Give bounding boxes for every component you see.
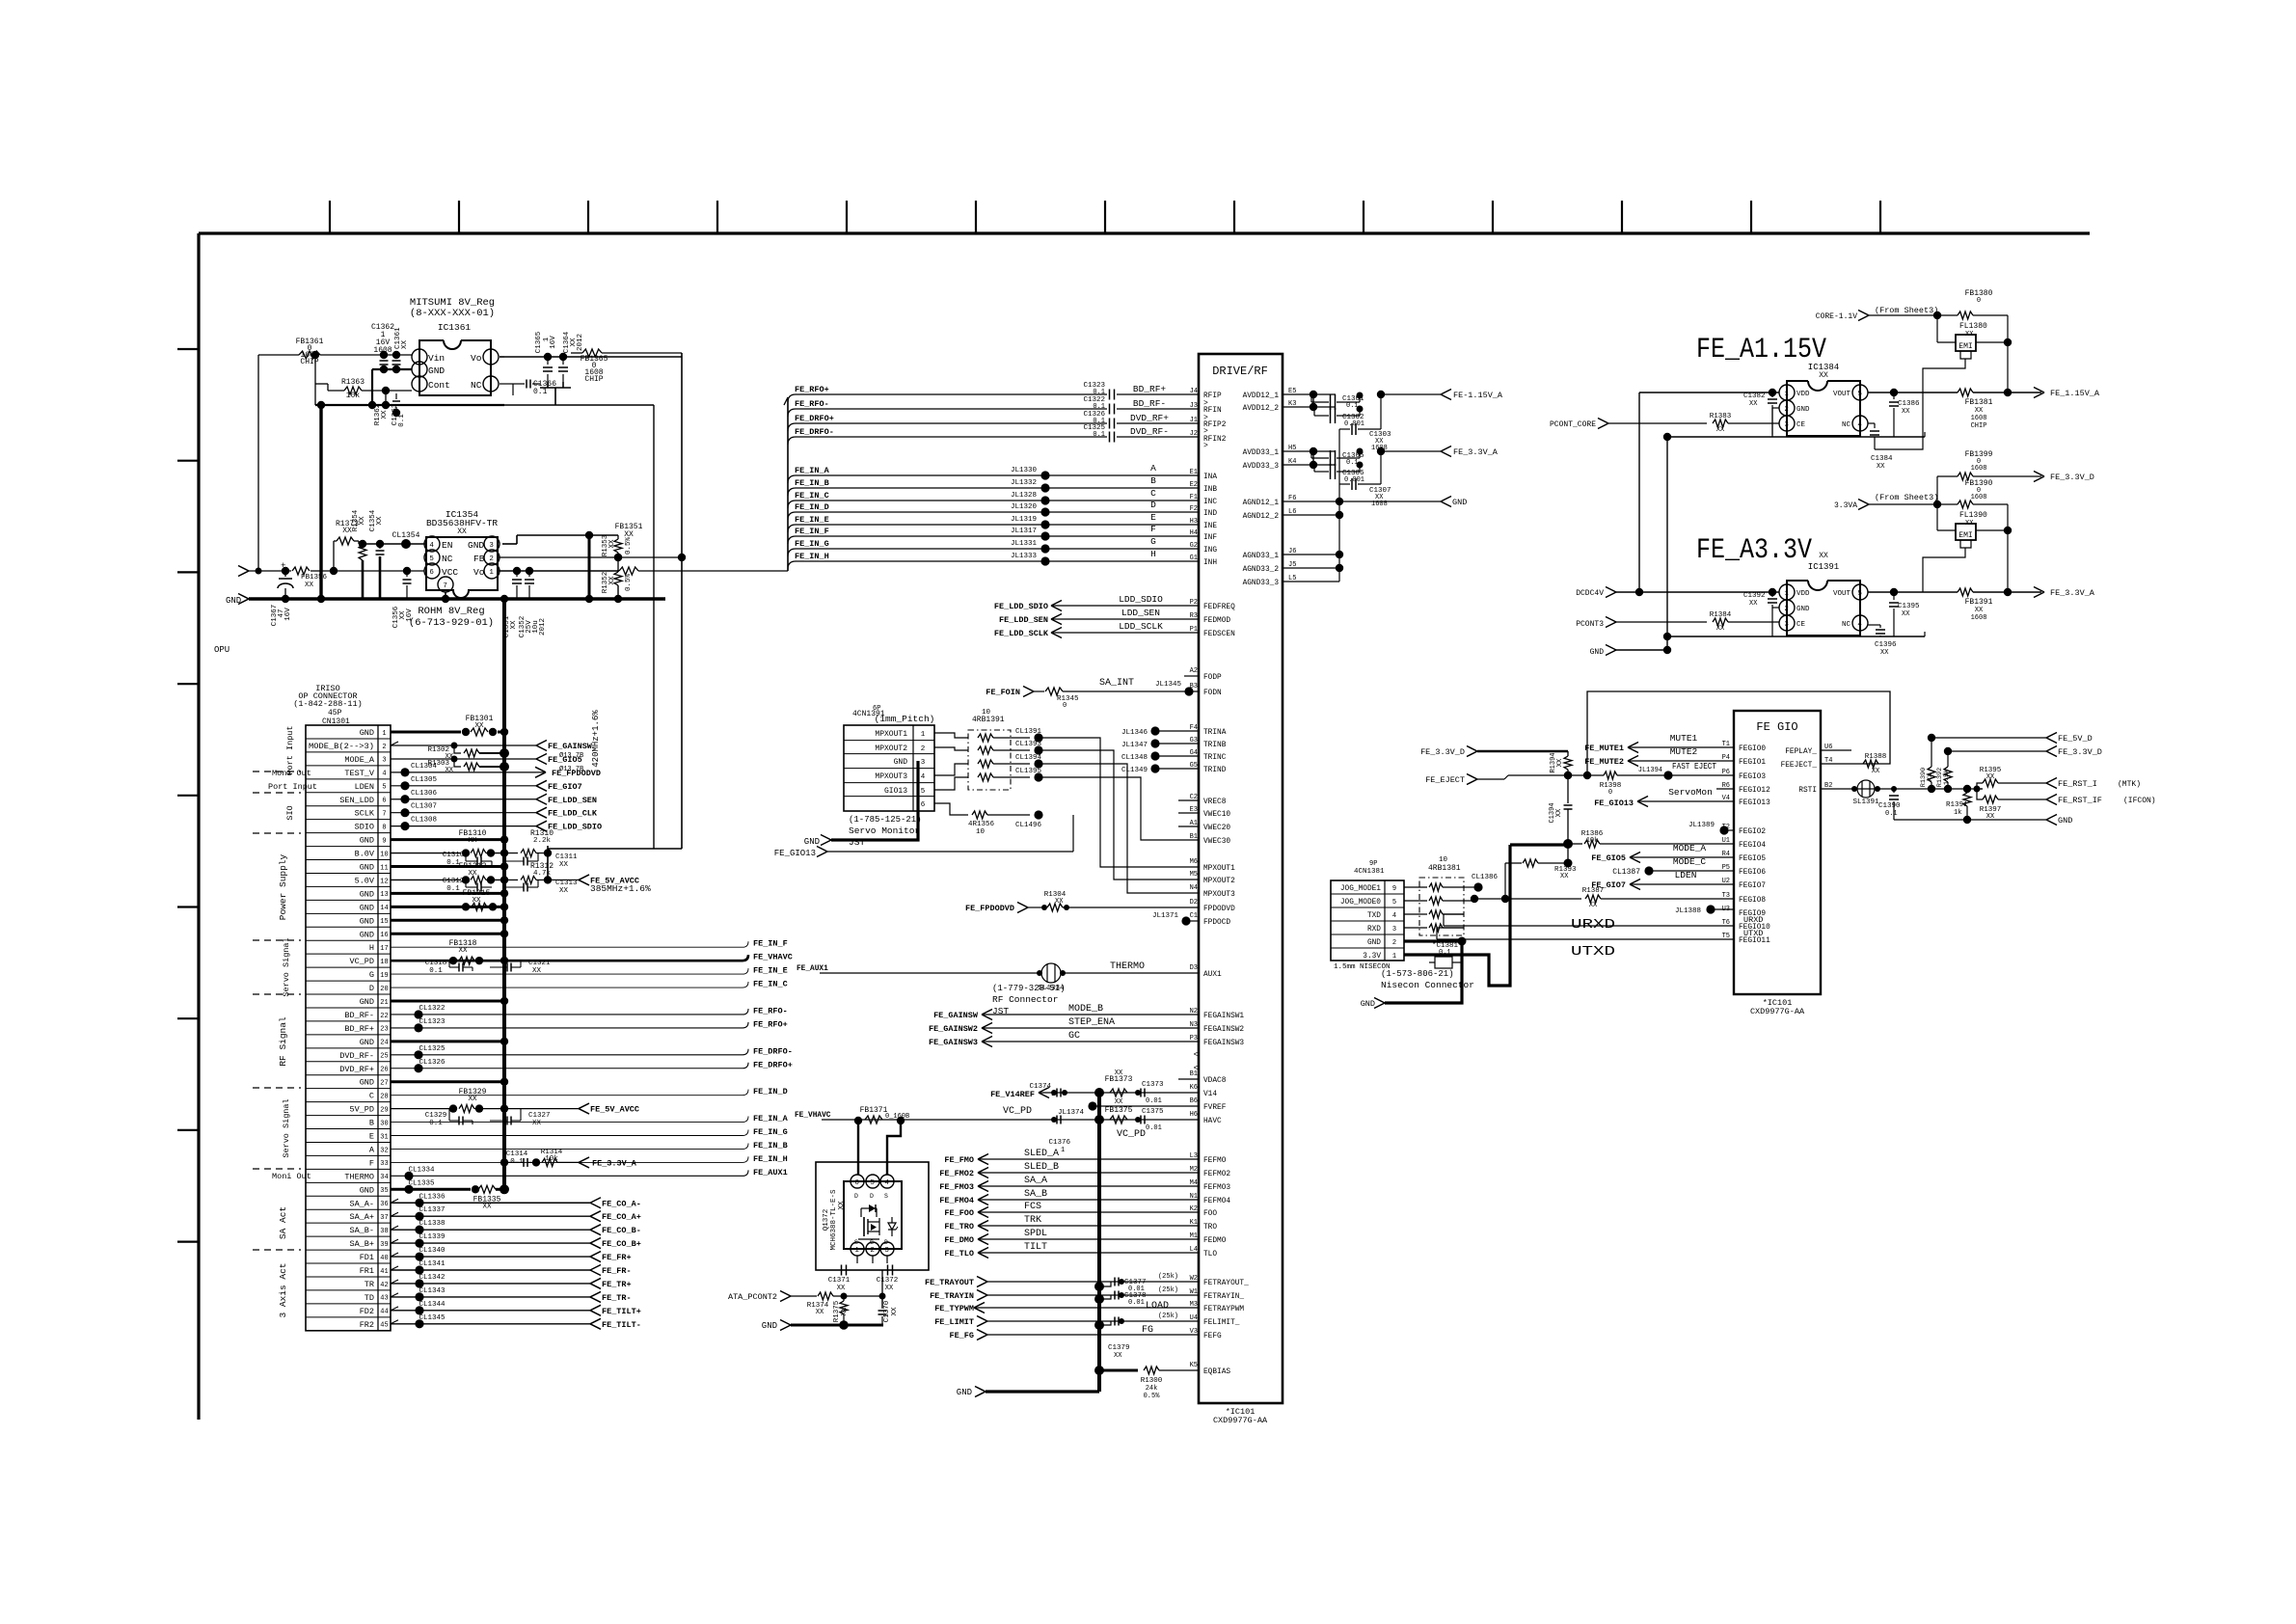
- net wire FE_IN_H jumper JL1333 to pin G1: [788, 561, 796, 569]
- svg-text:J1: J1: [1190, 417, 1198, 424]
- transistor Q1372 outer box: [816, 1162, 929, 1270]
- row31 wire to net FE_IN_G: [391, 1135, 743, 1137]
- svg-text:FE_RFO+: FE_RFO+: [795, 385, 829, 394]
- svg-text:C1396: C1396: [1875, 641, 1897, 649]
- svg-text:C1327: C1327: [528, 1112, 551, 1120]
- svg-text:CL1304: CL1304: [411, 763, 438, 771]
- svg-text:FE_TR+: FE_TR+: [602, 1280, 632, 1289]
- svg-text:H4: H4: [1190, 529, 1198, 537]
- svg-text:FE_3.3V_A: FE_3.3V_A: [1453, 447, 1499, 457]
- svg-text:XX: XX: [482, 1203, 492, 1210]
- svg-text:MUTE1: MUTE1: [1670, 733, 1698, 744]
- svg-text:C1376: C1376: [1048, 1139, 1070, 1147]
- row3 MODE_A wire arrow FE_GIO5: [391, 758, 536, 760]
- svg-text:1608: 1608: [1971, 614, 1987, 622]
- svg-text:XX: XX: [1975, 407, 1984, 415]
- svg-text:C: C: [369, 1092, 374, 1101]
- svg-text:9: 9: [1392, 885, 1396, 893]
- svg-text:FE_IN_F: FE_IN_F: [753, 939, 788, 949]
- row33 wire to net FE_IN_H: [391, 1161, 743, 1163]
- svg-text:3 Axis Act: 3 Axis Act: [278, 1262, 288, 1317]
- svg-text:XX: XX: [1114, 1352, 1122, 1360]
- svg-text:D: D: [870, 1193, 874, 1200]
- svg-text:K5: K5: [1190, 1362, 1198, 1369]
- svg-text:FR2: FR2: [360, 1320, 374, 1330]
- svg-text:SA_B: SA_B: [1024, 1189, 1047, 1200]
- svg-text:(1mm_Pitch): (1mm_Pitch): [875, 714, 935, 724]
- svg-text:VDD: VDD: [1796, 590, 1810, 598]
- svg-text:CL1341: CL1341: [419, 1260, 446, 1268]
- regulator IC1384 body: [1787, 381, 1860, 436]
- svg-text:FE_FG: FE_FG: [949, 1331, 974, 1340]
- svg-text:FE_FR-: FE_FR-: [602, 1266, 632, 1276]
- svg-text:FE_GAINSW: FE_GAINSW: [548, 742, 593, 751]
- svg-text:C1390: C1390: [1878, 802, 1901, 810]
- bridge SL1334: [1041, 963, 1061, 983]
- svg-text:5: 5: [870, 1179, 875, 1187]
- svg-text:FE_3.3V_A: FE_3.3V_A: [2050, 588, 2095, 598]
- Q1372 zener diode right: [891, 1217, 893, 1223]
- svg-text:GND: GND: [1361, 999, 1375, 1009]
- svg-text:RF Signal: RF Signal: [278, 1016, 288, 1067]
- IC1361 pin GND: [412, 362, 427, 377]
- svg-text:C1386: C1386: [1898, 400, 1920, 408]
- row10 B.0V network FB1310 R1310 C1310 C1311: [391, 853, 461, 854]
- svg-text:Cont: Cont: [428, 380, 450, 391]
- IC1361 pin NC: [483, 376, 499, 392]
- svg-text:36: 36: [380, 1201, 388, 1208]
- svg-text:R3: R3: [1190, 612, 1198, 620]
- svg-text:JOG_MODE1: JOG_MODE1: [1340, 885, 1381, 893]
- svg-text:13: 13: [380, 891, 388, 899]
- svg-text:CHIP: CHIP: [584, 375, 603, 384]
- row1 GND thick wire with FB1301: [391, 731, 461, 734]
- RSTI wire from pin B2: [1821, 788, 1983, 790]
- svg-text:39: 39: [380, 1241, 388, 1249]
- svg-text:FEFMO: FEFMO: [1203, 1157, 1227, 1165]
- svg-text:0.1: 0.1: [1439, 949, 1451, 957]
- svg-text:4: 4: [921, 773, 926, 781]
- svg-text:JL1388: JL1388: [1675, 907, 1701, 915]
- svg-text:CORE-1.1V: CORE-1.1V: [1816, 312, 1857, 321]
- svg-text:LDD_SEN: LDD_SEN: [1121, 608, 1160, 618]
- svg-text:C1: C1: [1190, 912, 1198, 920]
- wire riser to 8V bus lower rail: [314, 355, 316, 405]
- net wire FE_DRFO+ coupling cap C1326 to pin J1: [788, 423, 796, 431]
- IC1354 pin EN: [424, 536, 440, 552]
- svg-text:SEN_LDD: SEN_LDD: [339, 796, 374, 805]
- svg-text:DCDC4V: DCDC4V: [1576, 589, 1604, 598]
- svg-text:FE_LDD_SDIO: FE_LDD_SDIO: [548, 823, 602, 832]
- IC1354 pin VCC: [424, 563, 440, 579]
- thick analog ground bus x=1140: [1097, 1093, 1101, 1392]
- svg-text:FE_CO_A-: FE_CO_A-: [602, 1199, 641, 1208]
- RB1381 resistors: [1404, 886, 1427, 888]
- svg-text:10: 10: [380, 851, 388, 858]
- capacitor C1365 symbol: [547, 357, 549, 365]
- connector CN1301 table frame: [306, 725, 391, 1331]
- GND wire right: [1894, 819, 2046, 821]
- svg-text:FE_RST_I: FE_RST_I: [2058, 779, 2097, 789]
- ferrite bead FB1356: [292, 567, 310, 575]
- svg-text:GND: GND: [1452, 498, 1467, 507]
- left border tick marks: [177, 348, 199, 350]
- svg-text:TRK: TRK: [1024, 1215, 1041, 1226]
- svg-text:F1: F1: [1190, 494, 1198, 501]
- svg-text:MODE_C: MODE_C: [1673, 856, 1707, 867]
- svg-text:CL1344: CL1344: [419, 1301, 446, 1309]
- svg-text:FE_IN_F: FE_IN_F: [795, 527, 829, 536]
- svg-text:TEST_V: TEST_V: [344, 769, 375, 778]
- svg-text:CL1308: CL1308: [411, 817, 437, 825]
- svg-text:0.01: 0.01: [1128, 1299, 1145, 1307]
- svg-text:B: B: [369, 1119, 374, 1128]
- svg-text:CL1348: CL1348: [1121, 754, 1148, 762]
- svg-text:32: 32: [380, 1147, 388, 1154]
- svg-text:FE_EJECT: FE_EJECT: [1425, 775, 1465, 785]
- svg-text:FE_IN_D: FE_IN_D: [753, 1087, 788, 1096]
- svg-text:GND: GND: [1590, 648, 1605, 657]
- svg-text:XX: XX: [457, 528, 467, 536]
- svg-text:TLO: TLO: [1203, 1251, 1217, 1259]
- svg-text:H: H: [369, 943, 374, 953]
- svg-text:XX: XX: [885, 1285, 894, 1292]
- svg-text:420MHz+1.6%: 420MHz+1.6%: [591, 710, 601, 768]
- svg-text:Servo Signal: Servo Signal: [282, 1098, 291, 1157]
- svg-text:26: 26: [380, 1067, 388, 1074]
- svg-text:5.0V: 5.0V: [355, 876, 375, 885]
- svg-text:NC: NC: [1842, 621, 1851, 629]
- svg-text:CL1305: CL1305: [411, 776, 438, 784]
- svg-text:FE_IN_C: FE_IN_C: [795, 491, 829, 501]
- svg-text:GND: GND: [360, 997, 374, 1007]
- svg-text:SLED_B: SLED_B: [1024, 1162, 1059, 1173]
- svg-text:5: 5: [1857, 391, 1862, 398]
- svg-text:4: 4: [429, 542, 434, 550]
- svg-text:VWEC10: VWEC10: [1203, 811, 1230, 819]
- svg-text:>: >: [1203, 414, 1208, 422]
- svg-text:GND: GND: [2058, 816, 2072, 826]
- svg-text:MPXOUT3: MPXOUT3: [875, 772, 907, 781]
- svg-text:21: 21: [380, 999, 388, 1007]
- svg-text:XX: XX: [1902, 610, 1910, 618]
- svg-text:FE_TLO: FE_TLO: [944, 1249, 974, 1259]
- FG filter cap: [1094, 1320, 1104, 1330]
- svg-text:JL1331: JL1331: [1011, 540, 1038, 548]
- svg-text:AVDD12_2: AVDD12_2: [1243, 405, 1280, 413]
- net wire FE_IN_G jumper JL1331 to pin G2: [788, 549, 796, 556]
- svg-text:XX: XX: [342, 527, 352, 535]
- svg-text:FE_TILT+: FE_TILT+: [602, 1307, 641, 1316]
- svg-text:AUX1: AUX1: [1203, 971, 1222, 979]
- svg-text:MPXOUT2: MPXOUT2: [875, 744, 907, 753]
- svg-text:16V: 16V: [284, 608, 292, 621]
- svg-text:XX: XX: [1880, 649, 1889, 657]
- wire connector to RB1391 to jumper CL1393: [934, 747, 968, 750]
- IC1354 pin 7 bottom: [438, 577, 453, 592]
- svg-text:FEGIO6: FEGIO6: [1739, 869, 1766, 877]
- svg-text:5: 5: [1392, 899, 1396, 907]
- page border frame: [199, 231, 2090, 234]
- svg-text:FE_TRAYOUT: FE_TRAYOUT: [925, 1278, 974, 1287]
- svg-text:J4: J4: [1190, 388, 1198, 395]
- svg-text:FETRAYPWM: FETRAYPWM: [1203, 1306, 1244, 1313]
- svg-text:3: 3: [884, 1247, 889, 1255]
- MPXOUT route wires to IC: [1039, 738, 1199, 867]
- svg-text:FE_3.3V_D: FE_3.3V_D: [2050, 473, 2094, 482]
- svg-text:FE_IN_D: FE_IN_D: [795, 502, 829, 512]
- svg-text:18: 18: [380, 959, 388, 966]
- svg-text:CL1336: CL1336: [419, 1193, 446, 1201]
- row20 wire to net FE_IN_C: [391, 987, 743, 988]
- svg-text:SA_A-: SA_A-: [349, 1199, 374, 1208]
- svg-text:4RB1381: 4RB1381: [1428, 864, 1461, 873]
- svg-text:CL1342: CL1342: [419, 1274, 445, 1282]
- wire connector to RB1391 to jumper CL1395: [934, 777, 968, 790]
- net wire FE_IN_B jumper JL1332 to pin E2: [788, 488, 796, 496]
- svg-text:3.3V: 3.3V: [1363, 953, 1381, 961]
- svg-text:CL1338: CL1338: [419, 1220, 445, 1228]
- svg-text:FE_1.15V_A: FE_1.15V_A: [2050, 389, 2100, 398]
- svg-text:XX: XX: [446, 767, 454, 774]
- svg-text:C1382: C1382: [1743, 392, 1766, 400]
- svg-text:GND: GND: [804, 837, 820, 847]
- svg-text:FE_V14REF: FE_V14REF: [990, 1090, 1035, 1099]
- svg-text:FE_LDD_SDIO: FE_LDD_SDIO: [994, 602, 1048, 611]
- svg-text:JL1394: JL1394: [1638, 767, 1662, 774]
- svg-text:J3: J3: [1190, 402, 1198, 410]
- svg-text:9P: 9P: [1369, 860, 1377, 868]
- EMI FL1380 bottom pins to ground side: [1960, 351, 1971, 359]
- svg-text:35: 35: [380, 1187, 388, 1195]
- net wire FE_RFO- coupling cap C1322 to pin J3: [788, 409, 796, 417]
- svg-text:VC_PD: VC_PD: [1003, 1106, 1032, 1117]
- Q1372 mosfet symbol: [863, 1217, 865, 1236]
- svg-text:CL1322: CL1322: [419, 1005, 445, 1013]
- svg-text:FE_LIMIT: FE_LIMIT: [934, 1317, 974, 1327]
- regulator IC1354 body: [426, 537, 432, 590]
- svg-text:3: 3: [382, 757, 386, 765]
- svg-text:FB1391: FB1391: [1965, 598, 1993, 607]
- svg-text:>: >: [1203, 442, 1208, 450]
- AVDD33 decoupling caps C1305 C1306 C1307: [1312, 451, 1314, 465]
- svg-text:C1372: C1372: [877, 1277, 899, 1285]
- svg-text:C1371: C1371: [828, 1277, 851, 1285]
- svg-text:C1311: C1311: [555, 853, 578, 861]
- resistor network RB1391 dashed box: [968, 730, 1011, 790]
- row12 5.0V network FB1312 R1312 arrow FE_5V_AVCC: [391, 879, 461, 880]
- svg-text:BD_RF-: BD_RF-: [344, 1011, 374, 1020]
- svg-text:M3: M3: [1190, 1301, 1198, 1309]
- svg-text:AGND12_2: AGND12_2: [1243, 513, 1280, 521]
- svg-text:GND: GND: [894, 758, 908, 767]
- svg-text:RF Connector: RF Connector: [992, 994, 1058, 1005]
- DRIVE/RF ASIC IC1301 body: [1199, 354, 1283, 1403]
- svg-text:FE_LDD_SCLK: FE_LDD_SCLK: [994, 629, 1049, 638]
- svg-text:F2: F2: [1190, 505, 1198, 513]
- svg-text:1: 1: [1392, 953, 1396, 961]
- svg-text:FEGAINSW1: FEGAINSW1: [1203, 1013, 1244, 1020]
- svg-text:SA_B-: SA_B-: [349, 1226, 374, 1235]
- svg-text:1608: 1608: [1971, 465, 1987, 473]
- svg-text:FB1356: FB1356: [301, 574, 328, 582]
- AVDD12 decoupling caps C1301 C1302 C1303: [1312, 394, 1314, 407]
- IC1354 pin GND: [484, 536, 500, 552]
- svg-text:FB1381: FB1381: [1965, 398, 1993, 407]
- svg-text:40: 40: [380, 1255, 388, 1262]
- svg-text:FELIMIT_: FELIMIT_: [1203, 1319, 1240, 1327]
- svg-text:JL1389: JL1389: [1688, 822, 1715, 829]
- svg-text:RSTI: RSTI: [1798, 787, 1817, 795]
- svg-text:(25k): (25k): [1158, 1286, 1178, 1294]
- bridge SL1391: [1857, 780, 1875, 798]
- svg-text:H: H: [1150, 549, 1156, 559]
- pin7 wire to GND bus: [445, 592, 446, 599]
- svg-text:GND: GND: [360, 916, 374, 926]
- svg-text:7: 7: [382, 811, 386, 819]
- capacitor C1361 symbol: [395, 355, 397, 359]
- svg-text:M5: M5: [1190, 871, 1198, 879]
- svg-text:INE: INE: [1203, 523, 1217, 530]
- svg-text:CE: CE: [1796, 421, 1806, 429]
- wire GND of caps: [372, 368, 412, 370]
- wire FE_3.3V_D to R1394 chain: [1477, 750, 1568, 752]
- svg-text:THERMO: THERMO: [344, 1172, 374, 1181]
- svg-text:INA: INA: [1203, 474, 1217, 481]
- svg-text:42: 42: [380, 1282, 388, 1289]
- svg-text:FEFMO4: FEFMO4: [1203, 1198, 1230, 1205]
- svg-text:38: 38: [380, 1228, 388, 1235]
- svg-text:ATA_PCONT2: ATA_PCONT2: [728, 1292, 777, 1302]
- svg-text:GND: GND: [957, 1388, 972, 1397]
- svg-text:4CN1381: 4CN1381: [1354, 868, 1385, 876]
- row29 5V_PD network FB1329 C1329 C1327 arrow FE_5V_AVCC: [391, 1108, 453, 1110]
- svg-text:0: 0: [1063, 702, 1067, 710]
- svg-text:FEGIO7: FEGIO7: [1739, 882, 1766, 890]
- svg-text:<: <: [1194, 1050, 1199, 1060]
- svg-text:TD: TD: [365, 1293, 374, 1303]
- svg-text:DVD_RF+: DVD_RF+: [339, 1065, 374, 1074]
- svg-text:FEGIO2: FEGIO2: [1739, 828, 1766, 836]
- svg-text:FE_MUTE2: FE_MUTE2: [1584, 757, 1624, 767]
- svg-text:SA_INT: SA_INT: [1099, 678, 1134, 689]
- svg-text:CL1354: CL1354: [392, 531, 420, 540]
- R6 stub: [1716, 788, 1734, 790]
- svg-text:PCONT3: PCONT3: [1576, 620, 1604, 629]
- svg-text:(8-XXX-XXX-01): (8-XXX-XXX-01): [410, 308, 495, 319]
- svg-text:S: S: [854, 1239, 858, 1246]
- svg-text:FEFG: FEFG: [1203, 1333, 1222, 1340]
- svg-text:4R1356: 4R1356: [968, 821, 995, 828]
- svg-text:16: 16: [380, 932, 388, 939]
- svg-text:C1314: C1314: [506, 1150, 528, 1158]
- svg-text:PCONT_CORE: PCONT_CORE: [1550, 420, 1596, 429]
- resistor network RB1381 dashed box: [1419, 878, 1464, 935]
- svg-text:2012: 2012: [577, 334, 584, 351]
- svg-text:FEDMOD: FEDMOD: [1203, 617, 1230, 625]
- svg-text:6: 6: [854, 1179, 859, 1187]
- svg-text:FEPLAY_: FEPLAY_: [1785, 748, 1817, 756]
- svg-text:C1329: C1329: [425, 1112, 447, 1120]
- rows 9,11,13-16 GND thick wires to bus: [391, 838, 504, 841]
- svg-text:XX: XX: [376, 516, 384, 526]
- svg-text:B3: B3: [1190, 683, 1198, 690]
- net wire FE_RFO+ coupling cap C1323 to pin J4: [788, 394, 796, 402]
- svg-text:VC_PD: VC_PD: [1117, 1129, 1146, 1140]
- svg-text:28: 28: [380, 1093, 388, 1100]
- arrow FE_3.3V_A output right: [2034, 587, 2044, 593]
- vertical from Q1372 to ATA junction: [881, 1270, 883, 1308]
- svg-text:P3: P3: [1190, 1035, 1198, 1042]
- svg-text:FE_TILT-: FE_TILT-: [602, 1320, 641, 1330]
- GND pin3 wire to bus: [502, 543, 517, 545]
- svg-text:0.001: 0.001: [1344, 420, 1364, 428]
- svg-text:FE_GAINSW3: FE_GAINSW3: [929, 1038, 978, 1047]
- svg-text:0.1: 0.1: [429, 967, 443, 975]
- svg-text:B6: B6: [1190, 1097, 1198, 1105]
- svg-text:Port Input: Port Input: [285, 725, 295, 774]
- svg-text:STEP_ENA: STEP_ENA: [1068, 1017, 1115, 1028]
- svg-text:GND: GND: [360, 889, 374, 899]
- svg-text:JL1332: JL1332: [1011, 479, 1037, 487]
- svg-text:CL1343: CL1343: [419, 1287, 446, 1295]
- arrow FE_3.3V_A out: [1381, 450, 1441, 452]
- svg-text:FE_GAINSW: FE_GAINSW: [933, 1011, 979, 1020]
- svg-text:Power Supply: Power Supply: [278, 854, 288, 921]
- svg-text:A: A: [1150, 463, 1156, 474]
- svg-text:N4: N4: [1190, 884, 1198, 892]
- svg-text:FE_3.3V_D: FE_3.3V_D: [1420, 747, 1465, 757]
- svg-text:C1312: C1312: [443, 878, 465, 885]
- svg-text:5: 5: [921, 788, 926, 796]
- svg-text:FEGIO3: FEGIO3: [1739, 773, 1766, 781]
- svg-text:Nisecon Connector: Nisecon Connector: [1381, 980, 1474, 990]
- caps C1371 C1372 in bottom edge: [841, 1265, 843, 1276]
- svg-text:0.01: 0.01: [1146, 1097, 1162, 1105]
- svg-text:BD_RF+: BD_RF+: [1133, 384, 1167, 394]
- svg-text:JOG_MODE0: JOG_MODE0: [1340, 899, 1381, 907]
- svg-text:JL1320: JL1320: [1011, 503, 1038, 511]
- svg-text:E1: E1: [1190, 469, 1198, 476]
- svg-text:GND: GND: [1367, 939, 1381, 947]
- arrow FE-1.15V_A: [1381, 393, 1441, 395]
- svg-text:ServoMon: ServoMon: [1668, 787, 1713, 798]
- svg-text:FE_LDD_CLK: FE_LDD_CLK: [548, 809, 598, 819]
- svg-text:Vin: Vin: [428, 353, 445, 364]
- svg-text:FL1390: FL1390: [1959, 511, 1987, 520]
- row19 wire to net FE_IN_E: [391, 973, 743, 975]
- svg-text:0.1: 0.1: [1885, 810, 1898, 818]
- svg-text:FB: FB: [473, 554, 485, 564]
- svg-text:FE_AUX1: FE_AUX1: [753, 1168, 788, 1177]
- svg-text:FE GIO: FE GIO: [1756, 720, 1797, 734]
- svg-text:C1374: C1374: [1029, 1083, 1051, 1091]
- svg-text:K2: K2: [1190, 1205, 1198, 1213]
- svg-text:C1313: C1313: [555, 880, 578, 887]
- svg-text:XX: XX: [1115, 1098, 1123, 1106]
- svg-text:15: 15: [380, 918, 388, 926]
- svg-text:FPDODVD: FPDODVD: [1203, 906, 1235, 913]
- 8V rail feed to row networks: [548, 848, 682, 850]
- svg-text:DVD_RF-: DVD_RF-: [1130, 426, 1169, 437]
- svg-text:XX: XX: [559, 861, 569, 869]
- capacitor C1362 symbol: [383, 355, 385, 359]
- svg-text:FEGIO11: FEGIO11: [1739, 937, 1770, 945]
- svg-text:FE_IN_E: FE_IN_E: [795, 515, 829, 525]
- Vo pin1 wire: [498, 570, 540, 572]
- svg-text:DRIVE/RF: DRIVE/RF: [1212, 365, 1268, 378]
- FEEJECT loop wire: [1587, 691, 1890, 777]
